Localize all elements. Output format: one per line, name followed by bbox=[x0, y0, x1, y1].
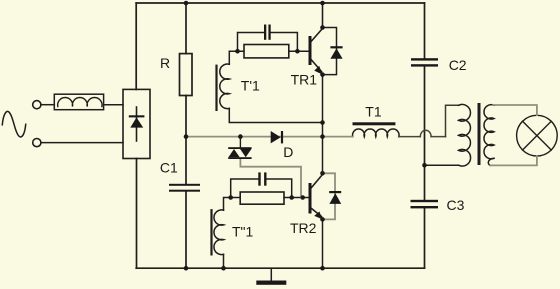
node mid rail C1 bbox=[184, 134, 189, 139]
resistor R lead top bbox=[185, 3, 187, 54]
node trigger junction bbox=[300, 195, 305, 200]
diac branch bbox=[239, 137, 241, 148]
node T"1 top bbox=[228, 195, 233, 200]
wire cap bracket right lower bbox=[267, 179, 292, 198]
wire cap bracket left upper bbox=[238, 33, 265, 52]
diac right triangle bbox=[240, 149, 251, 157]
wire mid rail left bbox=[186, 136, 353, 138]
svg-text:TR2: TR2 bbox=[290, 220, 317, 236]
svg-text:TR1: TR1 bbox=[291, 72, 318, 88]
filled black parts bbox=[129, 1, 438, 285]
wire lower terminal to rectifier bbox=[41, 142, 123, 144]
wire TR2 emitter to bottom rail bbox=[322, 219, 324, 268]
wire primary bottom lead bbox=[425, 164, 459, 166]
wire terminal to choke bbox=[41, 104, 55, 106]
svg-text:C3: C3 bbox=[447, 197, 465, 213]
transformer T"1 winding bbox=[214, 210, 224, 255]
AC source sine bbox=[2, 111, 25, 137]
svg-text:T"1: T"1 bbox=[232, 224, 254, 240]
node bottom rail T"1 bbox=[221, 266, 226, 271]
wire top rail bbox=[136, 2, 424, 4]
capacitor C3 plates bbox=[411, 200, 439, 202]
capacitor C2 plates bbox=[411, 58, 438, 60]
wire TR2 diode loop bbox=[323, 173, 336, 219]
node TR2 collector bbox=[320, 171, 325, 176]
wire cap bracket right upper bbox=[271, 33, 298, 52]
inductor T1 winding bbox=[353, 129, 400, 137]
rectifier diode cathode bar bbox=[129, 115, 145, 117]
inductor T1 bar bbox=[353, 122, 396, 125]
node TR2 base wire bbox=[289, 195, 294, 200]
transformer core bbox=[478, 105, 481, 164]
wire T"1 top lead bbox=[224, 198, 241, 211]
node bottom rail C1 bbox=[184, 266, 189, 271]
wire hop to riser bbox=[431, 136, 445, 138]
lamp cross bbox=[523, 121, 552, 150]
capacitor C1 lead bottom bbox=[185, 192, 187, 269]
transistor TR2 base bar bbox=[309, 183, 312, 214]
wire hop over right rail bbox=[420, 130, 431, 136]
wire T'1 bottom lead to TR1 emitter bbox=[229, 108, 322, 122]
node mid rail TR branch bbox=[320, 134, 325, 139]
terminal top bbox=[33, 101, 41, 109]
wire bottom rail bbox=[136, 267, 424, 269]
wire T"1 bottom lead bbox=[223, 254, 225, 268]
svg-text:R: R bbox=[160, 55, 170, 71]
node top rail R bbox=[184, 1, 189, 6]
rectifier bridge box bbox=[123, 89, 150, 158]
diode TR1 antiparallel triangle bbox=[330, 48, 342, 58]
terminal bottom bbox=[33, 139, 41, 147]
transformer primary winding bbox=[459, 104, 471, 166]
ground bar bbox=[256, 281, 286, 285]
wire T'1 top lead bbox=[229, 51, 244, 64]
rectifier diode triangle bbox=[130, 117, 143, 127]
lamp circle bbox=[517, 115, 558, 156]
wire to TR2 base bbox=[284, 197, 309, 199]
transistor TR1 emitter arrow bbox=[314, 66, 322, 75]
transformer secondary winding bbox=[484, 105, 494, 159]
resistor base drive upper box bbox=[244, 45, 289, 58]
svg-text:C2: C2 bbox=[449, 57, 467, 73]
node primary bottom bbox=[422, 163, 427, 168]
diode TR2 antiparallel triangle bbox=[329, 193, 341, 204]
diode D triangle bbox=[271, 131, 281, 143]
node TR1 collector bbox=[320, 25, 325, 30]
diode TR2 antiparallel cathode bar bbox=[329, 191, 341, 193]
node T'1 bottom wire bbox=[320, 120, 325, 125]
transistor TR2 collector lead bbox=[312, 175, 323, 188]
wire choke to rectifier bbox=[104, 104, 123, 106]
transistor TR1 emitter lead bbox=[312, 60, 322, 72]
transistor TR1 base bar bbox=[309, 36, 312, 65]
diac top bar bbox=[228, 147, 251, 149]
wire lamp bottom lead bbox=[491, 156, 537, 165]
diode D cathode bar bbox=[281, 131, 283, 143]
wire riser to transformer primary bbox=[446, 105, 459, 136]
svg-text:C1: C1 bbox=[160, 160, 178, 176]
node TR2 emitter bbox=[320, 217, 325, 222]
wire secondary bottom hook bbox=[488, 158, 494, 165]
svg-text:T1: T1 bbox=[365, 104, 382, 120]
gray wires bbox=[186, 105, 537, 219]
resistor R box bbox=[180, 54, 193, 96]
svg-text:T'1: T'1 bbox=[241, 78, 260, 94]
choke box bbox=[54, 94, 103, 110]
wire rectifier bottom lead bbox=[136, 159, 138, 269]
diac bottom bar bbox=[228, 157, 251, 159]
wire TR1 diode loop bbox=[323, 28, 337, 75]
rectifier diode line bbox=[136, 107, 138, 141]
ground stub bbox=[270, 268, 272, 280]
capacitor C1 plates bbox=[169, 184, 200, 186]
svg-text:D: D bbox=[283, 144, 293, 160]
node TR1 base wire bbox=[295, 49, 300, 54]
transistor TR2 emitter lead bbox=[312, 209, 322, 217]
wire secondary top lead to lamp bbox=[493, 105, 537, 115]
node top rail TR1 bbox=[320, 1, 325, 6]
wire right rail bbox=[424, 3, 426, 268]
transformer T'1 winding bbox=[220, 64, 230, 109]
node mid rail diac bbox=[238, 134, 243, 139]
diac left triangle bbox=[228, 149, 239, 157]
resistor R lead bottom to C1 bbox=[185, 96, 187, 184]
wire cap bracket left lower bbox=[231, 179, 259, 198]
diode TR1 antiparallel cathode bar bbox=[330, 46, 342, 48]
node TR1 emitter bbox=[320, 72, 325, 77]
capacitor drive upper plates bbox=[264, 25, 266, 40]
wire diac trigger bbox=[240, 159, 301, 198]
wire mid rail T1 to hop bbox=[399, 136, 421, 138]
wire left rail bbox=[135, 3, 137, 89]
wire to TR1 base bbox=[289, 50, 309, 52]
transformer T'1 core bbox=[215, 66, 217, 110]
choke winding bbox=[58, 98, 102, 107]
wire TR1 emitter down to TR2 collector bbox=[322, 75, 324, 174]
transistor TR1 collector lead bbox=[312, 3, 323, 41]
resistor base drive lower box bbox=[240, 192, 284, 204]
node T'1 top bbox=[235, 49, 240, 54]
transistor TR2 emitter arrow bbox=[314, 212, 322, 220]
capacitor drive lower plates bbox=[258, 172, 260, 185]
node bottom rail TR2 bbox=[320, 266, 325, 271]
transformer T"1 core bbox=[210, 210, 212, 254]
